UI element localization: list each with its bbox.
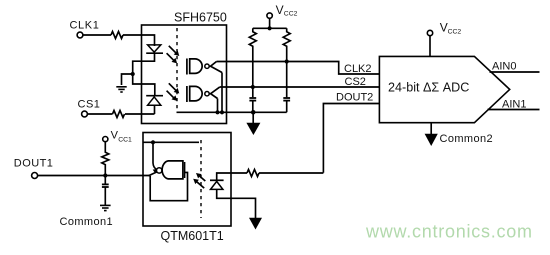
svg-text:www.cntronics.com: www.cntronics.com <box>365 222 532 242</box>
wire AIN1 <box>488 109 540 111</box>
svg-text:V: V <box>276 3 284 17</box>
Vcc2 terminal ADC <box>427 30 432 35</box>
svg-text:DOUT1: DOUT1 <box>14 158 54 170</box>
Vcc1 terminal <box>103 137 108 142</box>
wire staple top <box>217 173 247 180</box>
output fork ch2 <box>209 87 219 98</box>
wire <box>269 18 271 28</box>
junction <box>220 110 224 114</box>
svg-text:AIN0: AIN0 <box>492 61 516 73</box>
svg-text:AIN1: AIN1 <box>502 99 526 111</box>
wire emitter ch1 <box>221 73 223 113</box>
junction <box>215 110 219 114</box>
svg-text:DOUT2: DOUT2 <box>336 92 373 104</box>
top rail QTM <box>143 141 199 143</box>
rail drop <box>153 142 157 169</box>
wire Common2 <box>430 123 432 134</box>
SFH6750 box <box>142 25 227 124</box>
LED D2 <box>146 95 163 97</box>
svg-text:CS2: CS2 <box>345 76 366 88</box>
gate U3 <box>162 161 183 179</box>
bubble <box>157 168 162 173</box>
light arrows channel1 <box>167 46 180 64</box>
terminal DOUT1 <box>32 173 38 179</box>
ADC U2 <box>379 56 509 122</box>
QTM601T1 box <box>143 133 231 227</box>
junction node <box>131 72 135 76</box>
resistor R5 <box>247 170 259 177</box>
junction <box>268 26 272 30</box>
cap C3 <box>104 176 106 206</box>
wire to common arrow <box>252 112 254 123</box>
isolation barrier QTM <box>200 140 202 218</box>
wire ground tap <box>122 74 133 85</box>
terminal CS1 <box>82 111 88 117</box>
svg-text:SFH6750: SFH6750 <box>174 11 227 25</box>
wire <box>429 36 431 57</box>
common arrow <box>246 123 260 135</box>
junction <box>251 110 256 115</box>
common2 arrow <box>425 134 438 146</box>
bubble <box>205 92 209 96</box>
gate U1A <box>186 59 188 75</box>
bypass cap CA <box>249 98 256 101</box>
svg-text:CLK1: CLK1 <box>70 20 100 32</box>
svg-text:CS1: CS1 <box>78 99 101 111</box>
svg-text:Common2: Common2 <box>440 133 494 145</box>
light arrows channel2 <box>167 83 180 101</box>
pull-up resistor RA <box>249 28 256 87</box>
Vcc2 terminal <box>267 13 272 18</box>
wire DOUT2 <box>323 104 379 173</box>
svg-text:QTM601T1: QTM601T1 <box>161 229 224 243</box>
resistor R2 <box>113 111 125 118</box>
pull-up resistor RB <box>283 28 290 112</box>
input arrow mark <box>153 169 158 173</box>
wire <box>154 105 156 114</box>
junction <box>151 140 155 144</box>
svg-text:CLK2: CLK2 <box>344 63 372 75</box>
GND rail <box>177 111 287 113</box>
wire <box>252 87 254 112</box>
wire DOUT1 <box>38 175 150 177</box>
wire to DOUT2 riser <box>259 172 323 174</box>
resistor R1 <box>111 32 123 39</box>
junction CLK2 x pull-up <box>285 59 289 63</box>
wire CLK2 <box>217 62 380 75</box>
wire staple bottom <box>217 189 256 218</box>
svg-text:Common1: Common1 <box>60 216 114 228</box>
wire <box>83 34 111 36</box>
wire cathode bracket <box>133 54 155 96</box>
wire <box>123 35 155 46</box>
bypass cap CB <box>283 98 290 101</box>
isolation barrier <box>176 28 178 112</box>
gate U1B <box>186 86 188 102</box>
bubble <box>205 64 209 68</box>
output fork ch1 <box>209 62 222 73</box>
resistor R4 <box>102 142 109 176</box>
junction <box>103 173 107 177</box>
feedback loop / output <box>150 172 187 200</box>
wire emitter ch2 <box>217 99 219 113</box>
svg-text:CC2: CC2 <box>284 10 298 17</box>
LED D1 <box>148 45 161 52</box>
wire AIN0 <box>490 71 540 73</box>
svg-text:CC2: CC2 <box>448 28 462 35</box>
svg-text:CC1: CC1 <box>118 137 132 144</box>
ground <box>116 87 126 92</box>
terminal CLK1 <box>77 32 83 38</box>
wire <box>125 113 155 115</box>
junction CS2 x pull-up <box>251 85 255 89</box>
ground Common1 <box>100 205 111 210</box>
wire <box>88 113 113 115</box>
wire CS2 <box>220 86 380 88</box>
input diagonal <box>149 172 158 176</box>
light arrows QTM <box>193 173 205 188</box>
svg-text:24-bit ΔΣ ADC: 24-bit ΔΣ ADC <box>388 81 469 95</box>
top rail <box>253 27 287 29</box>
photodiode D3 <box>210 179 224 181</box>
ground arrow <box>249 218 262 230</box>
